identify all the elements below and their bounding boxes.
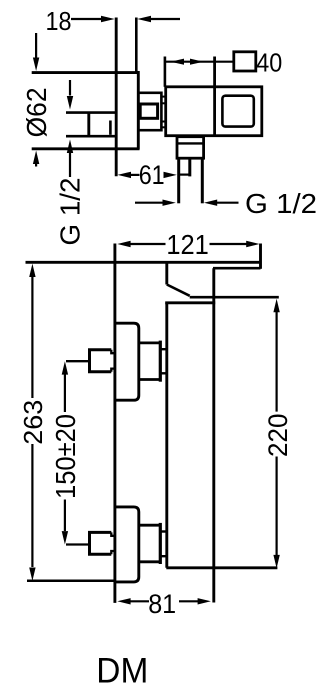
knob 2 (90, 532, 112, 554)
body right edge (ext to 81) (212, 268, 215, 602)
body left edge (165, 262, 168, 568)
dim 61 left arrow (130, 174, 140, 176)
svg-text:263: 263 (18, 400, 48, 445)
extension line right of 18 (135, 18, 138, 73)
spout section bottom edge (165, 301, 215, 304)
svg-text:G 1/2: G 1/2 (55, 178, 86, 246)
square symbol (234, 52, 256, 71)
stub 2 (150 ext) (66, 543, 88, 545)
dim G 1/2 left lower arrow (up) (69, 153, 71, 177)
nut 1 back top connector (160, 348, 166, 350)
dim 121 line left (130, 243, 166, 245)
dim G 1/2 left upper arrow (down) (69, 80, 71, 96)
svg-text:Ø62: Ø62 (21, 87, 52, 137)
handle end (109, 121, 112, 135)
right extension / shelf cap (259, 244, 262, 269)
body divider / 40 ext right (213, 57, 216, 136)
union nut inner line (177, 142, 204, 144)
body bottom edge (166, 566, 277, 569)
dim 220 lower arrow (down) (276, 457, 278, 556)
dim 150±20 lower arrow (down) (64, 500, 66, 532)
shelf underside B (213, 267, 261, 270)
svg-text:40: 40 (256, 48, 282, 78)
svg-text:G 1/2: G 1/2 (245, 188, 317, 219)
svg-text:150±20: 150±20 (50, 414, 81, 499)
knob 2 step bottom (111, 551, 115, 554)
plate 2 (lower escutcheon) (115, 507, 139, 582)
handle base rect (138, 93, 161, 130)
dim 121 line right (210, 243, 248, 245)
dim 18 line left w/ arrow (71, 18, 103, 20)
knob 1 (90, 350, 112, 372)
plate 1 (upper escutcheon) (115, 323, 139, 400)
dim 263 lower arrow (down) (31, 444, 33, 567)
svg-text:DM: DM (96, 652, 148, 689)
knob 1 step top (111, 350, 115, 353)
dim G 1/2 right left-arrow (135, 202, 163, 204)
top edge A / 263 extension (26, 261, 262, 264)
nut 1 (139, 343, 160, 380)
dim Ø62 lower arrow (up) (35, 163, 37, 167)
dim Ø62 upper arrow (down) (35, 33, 37, 58)
long wall line (left) (113, 244, 116, 603)
plate top edge / Ø62 top extension (32, 71, 140, 74)
nub bottom (161, 122, 166, 128)
dim 61 right arrow (164, 174, 165, 176)
knob 1 step bottom (111, 369, 115, 372)
nub top (161, 97, 166, 104)
body left extension up (40 dim) (164, 57, 167, 87)
dim 150±20 upper arrow (up) (64, 375, 66, 413)
knob 2 step top (111, 532, 115, 535)
svg-text:220: 220 (263, 414, 293, 458)
svg-text:18: 18 (46, 6, 72, 36)
body outline (166, 87, 262, 136)
svg-text:61: 61 (139, 160, 165, 190)
nut 1 flange bar (159, 341, 162, 382)
dim 81 left arrow (130, 600, 149, 602)
handle inner rect (140, 104, 157, 118)
internal top contour (167, 285, 190, 296)
nut 2 flange bar (159, 523, 162, 564)
wall plate right edge (137, 71, 140, 149)
svg-text:81: 81 (148, 589, 176, 619)
svg-text:121: 121 (166, 229, 209, 260)
pipe left edge (177, 158, 180, 203)
spout aperture horizontal / 220 top extension (190, 296, 279, 299)
dim 61 continuation (180, 174, 190, 176)
nut 2 (139, 525, 160, 562)
handle top edge + extension (66, 111, 116, 114)
wall plate left edge / long extension line (115, 18, 118, 177)
plate bottom edge / Ø62 bottom extension (32, 147, 140, 150)
handle bottom edge + extension (66, 135, 116, 138)
inner square (222, 96, 253, 127)
dim 263 upper arrow (up) (31, 277, 33, 398)
pipe middle stub (188, 158, 191, 176)
union nut (177, 137, 204, 159)
dim 81 right arrow (179, 600, 198, 602)
263 bottom extension / plate2 bottom ext (27, 579, 115, 582)
dim G 1/2 right right-arrow (217, 202, 239, 204)
handle divider (87, 113, 90, 137)
dim 40 line w/ arrows (166, 61, 234, 63)
pipe right edge (201, 158, 204, 203)
nut 1 back bottom connector (160, 372, 166, 374)
stub 1 (150 ext) (66, 360, 88, 362)
nut 2 back top connector (160, 530, 166, 532)
dim 220 upper arrow (up) (276, 312, 278, 412)
nut 2 back bottom connector (160, 555, 166, 557)
dim 18 line right w/ arrow (151, 18, 180, 20)
